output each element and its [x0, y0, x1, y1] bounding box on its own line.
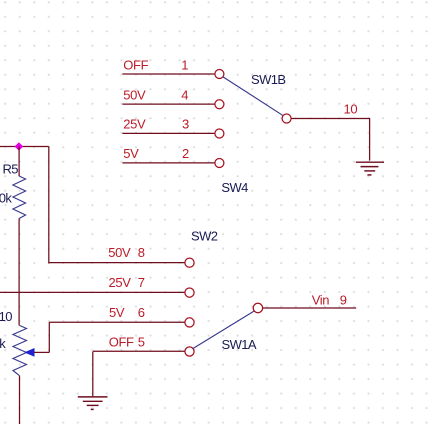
- svg-text:SW1A: SW1A: [222, 337, 257, 352]
- svg-text:5V: 5V: [123, 146, 139, 161]
- svg-text:Vin: Vin: [312, 293, 330, 308]
- svg-text:SW2: SW2: [191, 228, 218, 243]
- svg-text:8: 8: [138, 245, 145, 260]
- svg-text:R10: R10: [0, 309, 12, 324]
- svg-text:5: 5: [138, 334, 145, 349]
- svg-text:50V: 50V: [108, 245, 131, 260]
- svg-text:9: 9: [340, 293, 347, 308]
- svg-text:10: 10: [344, 102, 358, 117]
- svg-text:R5: R5: [3, 161, 19, 176]
- svg-text:3: 3: [182, 117, 189, 132]
- svg-text:4: 4: [181, 87, 188, 102]
- svg-text:1: 1: [181, 57, 188, 72]
- svg-text:SW1B: SW1B: [251, 72, 285, 87]
- svg-text:7: 7: [138, 275, 145, 290]
- svg-text:OFF: OFF: [123, 57, 148, 72]
- svg-text:5V: 5V: [109, 305, 125, 320]
- svg-text:6: 6: [138, 305, 145, 320]
- svg-text:SW4: SW4: [221, 180, 248, 195]
- svg-text:25V: 25V: [109, 275, 132, 290]
- svg-text:OFF: OFF: [109, 334, 134, 349]
- svg-text:100k: 100k: [0, 190, 12, 205]
- svg-text:25V: 25V: [123, 117, 146, 132]
- svg-text:50V: 50V: [123, 87, 146, 102]
- svg-text:2: 2: [182, 146, 189, 161]
